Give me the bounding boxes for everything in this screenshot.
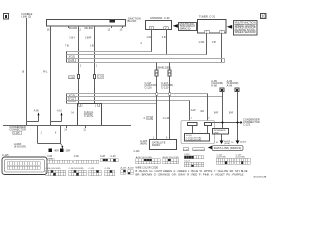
B2 left label [140,139,147,145]
wire: x=237 down [237,95,239,141]
J/B pin 2 [79,26,82,32]
svg-text:C-120: C-120 [145,86,153,90]
svg-text:C-122(5-DOOR): C-122(5-DOOR) [186,140,202,142]
tuner pin cell 1 [205,30,210,34]
tuner pin cell 2 [220,30,225,34]
svg-text:2 B: 2 B [90,45,94,48]
wire: tuner pin1 down x=206 [206,33,208,55]
svg-text:(4DR): (4DR) [224,143,230,145]
svg-text:C-116: C-116 [184,154,190,156]
condenser arrow [241,121,243,124]
pin table row2 group2 [69,168,87,176]
shield wire labels left [145,81,157,90]
svg-text:1 GR: 1 GR [199,41,205,44]
pin box left [188,123,198,126]
svg-text:A-09: A-09 [227,84,233,88]
svg-text:A-06X (5-DOOR): A-06X (5-DOOR) [163,156,179,159]
svg-text:A-06X: A-06X [240,140,246,143]
antenna box C-30 [146,21,172,30]
wire: J/B pin16 down vertical x=50 [50,28,52,126]
svg-text:: 5DR: : 5DR [65,151,71,153]
wire y=122 condenser [212,122,241,124]
label A-09X [14,142,26,148]
junction text box A [185,134,210,142]
pin table C-29 [111,156,119,161]
tick mark on x=156 [156,93,158,96]
callout arrow 3 [208,146,212,150]
pin table C-121 strip [184,160,204,166]
inline connector on x=78 [78,75,80,79]
svg-text:C-115: C-115 [13,133,20,135]
goto connector A-06 label [227,79,239,88]
svg-text:C-06: C-06 [74,156,80,158]
stub from pin box left [192,126,194,134]
tuner box C-31 [198,20,227,34]
component box M [78,104,102,126]
svg-text:DATA LINK (MMCS): DATA LINK (MMCS) [214,147,242,150]
B2 interior text [152,141,166,148]
stub to ground triangle 1 [221,134,223,141]
bus wire A4 [67,62,225,64]
condenser connector label bottom-left [9,125,26,131]
wire joining drops [38,143,61,145]
legend square 1 [49,149,60,153]
svg-text:C-29: C-29 [98,77,104,79]
svg-text:2 B: 2 B [162,36,166,39]
svg-text:A-14X: A-14X [128,167,134,170]
tick mark on x=169 [169,93,171,96]
bus wire B4 [67,103,157,105]
bus wire A3 [67,58,225,60]
big connector C-115 face view [2,154,47,174]
wire: J/B pin1 down vertical x=94 [94,28,96,104]
pin table A-06X [163,156,179,164]
wire: x=189 bundle B drop [189,101,191,124]
pin table row2 group4 [105,168,115,176]
stub from pin box right [207,126,209,134]
connector pin row top [7,162,40,165]
svg-text:B-R: B-R [229,112,233,114]
pin table A-05X [136,156,160,164]
wire: shield pair right x=169 [169,63,171,140]
boxed label C-115 [13,131,22,135]
svg-text:C-29: C-29 [111,156,117,158]
wire: C-30 pin1 down x=151 [151,30,153,53]
interface unit box [213,129,229,135]
svg-text:AC506571AB: AC506571AB [254,176,267,179]
svg-text:(4DR): (4DR) [140,141,147,145]
callout box 1 [179,23,197,31]
svg-text:A-08: A-08 [211,84,217,88]
wire: J/B pin2 down vertical x=78 [78,28,80,104]
condenser connector label [243,118,260,127]
goto connector A-05 label [211,79,223,88]
svg-text:C-116: C-116 [105,168,111,170]
svg-text:1 C-24: 1 C-24 [163,118,170,120]
junction block dark tag [110,20,116,23]
svg-text:C-28: C-28 [100,156,106,158]
bus wire A1 [67,51,152,53]
svg-text:MU-801: MU-801 [69,28,78,30]
svg-text:A-05X (4-DOOR): A-05X (4-DOOR) [136,156,152,159]
svg-text:: 4DR: : 4DR [53,151,59,153]
svg-text:GR: GR [200,111,204,113]
small table A-14X [128,167,134,175]
junction block name label [128,17,141,24]
svg-text:C-120: C-120 [161,86,169,90]
svg-text:C-05: C-05 [69,60,75,62]
pin table C-116 strip [184,154,204,159]
svg-text:(MMCS): (MMCS) [180,28,191,30]
svg-text:C-115: C-115 [2,154,9,157]
svg-text:C-121 C-122: C-121 C-122 [193,149,205,151]
joint connector comb A [66,51,68,63]
goto connector A-05 symbol [220,88,224,95]
J/C(3) label [68,95,75,102]
wire color code legend [136,168,249,177]
svg-text:R-L: R-L [43,70,48,74]
svg-text:7 B: 7 B [65,45,69,48]
pin stub under long line x=66 [64,126,67,132]
svg-text:C-04 (4-DOOR): C-04 (4-DOOR) [46,168,61,170]
svg-text:C-10 (5-DOOR): C-10 (5-DOOR) [69,168,84,170]
svg-text:C-10 (5-: C-10 (5- [84,114,94,118]
connector pin row bottom [7,166,40,169]
pin table row2 group3 [89,168,102,176]
J/B pin 13 [120,26,123,32]
pin table C-122 5DR [235,154,250,164]
pin table C-06 [74,156,99,163]
pin table row2 group1 [46,168,66,176]
J/B pin 15 [65,26,78,48]
C-30 pin cell 1 [149,27,154,31]
group tag box 1 [183,148,189,152]
pin table C-121 4DR [216,154,234,164]
callout box 2 [234,21,258,36]
svg-text:B-R: B-R [214,112,218,114]
svg-text:SPEED SENSOR: SPEED SENSOR [235,32,256,34]
callout arrow 2 [227,25,232,29]
svg-text:C-28: C-28 [69,77,75,79]
inline connector on x=94 [94,75,96,79]
wire: shield pair left x=156 [156,63,158,140]
wire: x=222 down [222,95,224,129]
svg-text:(4-DOOR): (4-DOOR) [14,144,26,148]
svg-text:BR : BROWN O : ORANGE GR : G: BR : BROWN O : ORANGE GR : GRAY R : RED … [136,173,245,176]
ground triangle 2 [236,141,240,145]
goto arrow elbow 2 [51,112,63,121]
svg-text:C-116: C-116 [134,151,141,153]
inline connector label C-28 [68,76,75,80]
callout arrow 1 [173,24,178,28]
inline connector pair on x=156 [155,70,158,76]
shield mid connector labels [144,116,170,120]
svg-text:2 B-R: 2 B-R [85,37,92,40]
satellite tuner box B2 [150,140,177,150]
svg-text:A-10: A-10 [57,110,62,113]
J/B pin 12 [108,26,112,32]
ground triangle 1 [220,141,224,145]
legend square 2 [60,149,71,153]
shield loop vertical x=224 [224,59,226,63]
wire: x=207 bundle B drop [207,94,209,124]
svg-text:LINK (2): LINK (2) [22,14,32,18]
svg-text:MU-802: MU-802 [85,28,94,30]
svg-text:10: 10 [261,14,266,19]
svg-text:RADIO: RADIO [152,143,160,147]
pin stub under long line x=85 [83,126,86,132]
bus wire B1 [67,93,208,95]
box M interior label [84,110,94,118]
svg-text:B : BLACK LG : LIGHT GREEN G: B : BLACK LG : LIGHT GREEN G : GREEN L :… [136,170,249,173]
fusible link label [22,12,33,18]
page reference connector symbol top-left [4,14,9,20]
svg-text:2 B: 2 B [212,41,216,44]
J/B pin 16 [47,26,51,32]
svg-text:ANTENNA C-30: ANTENNA C-30 [150,16,170,20]
svg-text:WIRE COLOR CODE: WIRE COLOR CODE [136,168,159,170]
box M pin tick right [95,104,100,108]
pin table C-05 [47,156,72,163]
svg-text:TUNER C-31: TUNER C-31 [199,15,216,19]
page number box [261,14,267,19]
wire: C-30 pin2 down x=166 [166,30,168,56]
junction block (flat box) [47,20,126,27]
inline connector label C-29 [97,75,104,79]
svg-text:1 B-Y: 1 B-Y [69,37,76,40]
goto arrow elbow 1 [27,112,40,121]
wide label box bottom [212,146,243,151]
J/C(2) label [68,55,75,62]
box M pin tick left [79,104,84,108]
svg-text:A-13X: A-13X [121,167,127,170]
wire below: x=60 drop [60,126,62,144]
bus wire B3 [67,100,190,102]
svg-text:C-115: C-115 [89,168,95,170]
svg-text:G-W: G-W [191,110,197,112]
svg-text:C-123: C-123 [243,122,251,126]
wire: tuner pin2 down x=221 [221,33,223,63]
goto connector A-06 symbol [235,88,239,95]
junction dot x=222 [222,122,224,124]
small table A-13X [121,167,127,175]
svg-text:C-19: C-19 [147,118,153,120]
bus wire A2 [67,54,207,56]
main unit top edge long line [3,125,131,127]
wire: fusible link feed vertical x=26 [26,18,28,126]
svg-text:BLOCK: BLOCK [128,19,137,23]
shield wire labels right [161,81,173,90]
svg-text:UNIT: UNIT [214,132,220,134]
svg-text:C-121: C-121 [184,160,191,162]
J/B pin 1 [85,26,95,48]
pin box right [205,123,212,126]
bus wire B2 [67,96,223,98]
junction dot x=237 [237,122,239,124]
group tag box 2 [193,148,206,152]
svg-text:B: B [22,70,24,74]
inline connector pair on x=169 [168,70,171,76]
pin table C-28 [100,156,110,161]
joint connector comb B [66,94,68,104]
arrow stub down [61,144,64,149]
C-30 pin cell 2 [164,27,169,31]
svg-text:A-09: A-09 [34,110,39,113]
wire below: x=37 drop [37,126,39,144]
joint connector group container [181,121,215,144]
